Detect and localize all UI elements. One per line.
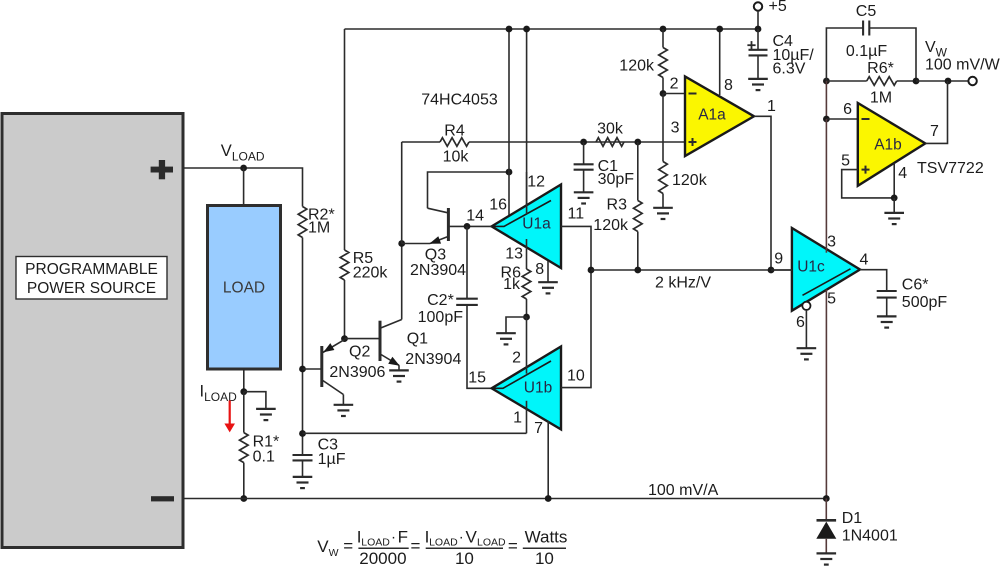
capacitor C1 — [574, 142, 635, 188]
svg-text:·: · — [391, 529, 396, 546]
label pin 12 — [527, 174, 545, 191]
node 2kHz net left — [588, 267, 595, 274]
node C5/R6 left junction — [823, 78, 830, 85]
capacitor C6* — [877, 277, 948, 312]
pin 8 rail A1a — [716, 26, 723, 95]
capacitor C5 — [826, 3, 916, 81]
svg-text:120k: 120k — [619, 58, 655, 75]
svg-text:74HC4053: 74HC4053 — [421, 92, 498, 109]
svg-text:R6*: R6* — [867, 60, 894, 77]
svg-text:6: 6 — [843, 101, 852, 118]
svg-text:C6*: C6* — [902, 277, 929, 294]
wire U1c output pin 4 — [860, 270, 887, 291]
wire pin6 to A1b — [826, 118, 857, 120]
svg-text:V: V — [466, 528, 478, 547]
svg-text:C2*: C2* — [427, 292, 454, 309]
wire Q3 base to U1a pin 14 — [448, 225, 491, 227]
formula Vw equation — [317, 528, 567, 569]
ground above U1b — [496, 333, 516, 344]
ground below C4 — [748, 79, 768, 90]
svg-text:10k: 10k — [443, 149, 470, 166]
+5 supply terminal — [754, 0, 787, 32]
label pin 6 A1b — [843, 101, 852, 118]
node Q1c/Q3e/R4 junction — [398, 240, 405, 247]
left tall rail to R5 — [344, 29, 346, 250]
svg-text:10: 10 — [535, 549, 554, 568]
minus terminal symbol — [151, 496, 174, 501]
ground at Q2 collector — [334, 405, 354, 416]
label 100 mV/A — [648, 482, 719, 499]
ground below A1b — [884, 213, 904, 224]
wire to ground A1b — [893, 198, 895, 213]
wire 2kHz to U1c pin 9 — [771, 269, 792, 271]
svg-text:7: 7 — [534, 420, 543, 437]
resistor R3 120k — [593, 142, 642, 234]
pin 5 rail down to bottom — [825, 290, 827, 499]
label pin 4 A1b — [898, 165, 907, 182]
svg-text:=: = — [343, 536, 353, 555]
svg-text:1µF: 1µF — [318, 451, 346, 468]
op-amp A1b — [858, 103, 926, 186]
svg-text:Q1: Q1 — [407, 331, 428, 348]
svg-text:Watts: Watts — [525, 528, 568, 547]
svg-text:7: 7 — [930, 123, 939, 140]
label pin 2 A1a — [670, 76, 679, 93]
node R6 right junction — [913, 78, 920, 85]
pin 12 line into U1a — [526, 172, 528, 214]
wire plus terminal to R2 top — [183, 168, 303, 207]
transistor Q2 2N3906 — [322, 340, 386, 405]
resistor 120k upper — [619, 29, 667, 94]
label pin 5 A1b — [841, 153, 850, 170]
svg-text:V: V — [317, 537, 329, 556]
label pin 10 — [567, 368, 585, 385]
svg-text:=: = — [508, 536, 518, 555]
svg-text:11: 11 — [568, 206, 585, 223]
label pin 4 U1c — [859, 252, 868, 269]
svg-text:120k: 120k — [672, 172, 708, 189]
svg-text:6: 6 — [796, 314, 805, 331]
wire Q3 collector up and right — [428, 172, 510, 208]
wire R2 bottom rail — [302, 238, 304, 455]
svg-text:6.3V: 6.3V — [773, 61, 806, 78]
svg-text:F: F — [398, 528, 408, 547]
label pin 9 U1c — [774, 251, 783, 268]
svg-text:1k: 1k — [503, 276, 521, 293]
svg-text:D1: D1 — [842, 510, 863, 527]
svg-text:Q3: Q3 — [425, 247, 446, 264]
wire junction to Q1 base — [345, 338, 381, 340]
svg-text:2N3904: 2N3904 — [405, 351, 461, 368]
wire R6 to junction — [526, 299, 528, 317]
node C1 junction — [580, 139, 587, 146]
svg-text:0.1: 0.1 — [253, 449, 275, 466]
label pin 1 — [513, 410, 522, 427]
wire top rail — [345, 28, 760, 30]
svg-text:1M: 1M — [870, 90, 892, 107]
label 74HC4053 — [421, 92, 498, 109]
svg-text:10: 10 — [567, 368, 585, 385]
ground below U1c pin 6 — [797, 348, 817, 359]
resistor R1* — [240, 433, 280, 466]
label pin 16 — [489, 197, 507, 214]
label pin 1 A1a — [767, 98, 776, 115]
label 2 kHz/V — [655, 275, 711, 292]
wire bottom rail 100mV/A — [183, 498, 826, 500]
pin 4 line A1b — [893, 163, 895, 198]
wire V_LOAD down to load — [243, 168, 245, 206]
label pin 8 A1a — [724, 77, 733, 94]
label pin 13 — [505, 246, 523, 263]
node pin16 rail lower — [506, 169, 513, 176]
svg-text:8: 8 — [535, 261, 544, 278]
wire C2 to U1b pin 15 — [467, 305, 492, 388]
wire R6 to Vw terminal — [916, 80, 968, 82]
svg-text:2N3904: 2N3904 — [410, 262, 466, 279]
svg-text:U1c: U1c — [797, 259, 825, 276]
pin 8 stub U1a — [547, 261, 549, 282]
wire load bottom to I_LOAD node — [243, 369, 245, 392]
svg-text:LOAD: LOAD — [477, 537, 506, 549]
node 120k top — [660, 26, 667, 33]
wire A1b pin5 loop — [842, 170, 895, 198]
svg-text:14: 14 — [466, 208, 484, 225]
svg-text:5: 5 — [827, 291, 836, 308]
transistor Q3 2N3904 — [402, 208, 466, 279]
resistor R4 — [402, 123, 685, 244]
pin 13 line — [526, 239, 528, 269]
analog switch U1a (74HC4053 section a) — [492, 185, 561, 269]
node A1a pin2 — [660, 90, 667, 97]
node C2 tap on pin14 wire — [464, 223, 471, 230]
node I_LOAD — [200, 383, 248, 404]
pin 2 line into U1b — [526, 317, 528, 374]
capacitor C4 — [747, 29, 814, 78]
svg-text:1M: 1M — [308, 220, 330, 237]
svg-text:4: 4 — [859, 252, 868, 269]
label pin 15 — [468, 370, 486, 387]
ground at I_LOAD — [256, 409, 276, 420]
wire 2kHz/V net — [591, 269, 792, 271]
svg-text:0.1µF: 0.1µF — [846, 43, 887, 60]
node R6 bottom junction — [523, 314, 530, 321]
resistor R6* 1M — [826, 60, 916, 107]
label pin 5 U1c — [827, 291, 836, 308]
ground below C6 — [877, 316, 897, 327]
svg-text:220k: 220k — [353, 265, 389, 282]
svg-text:2N3906: 2N3906 — [329, 364, 385, 381]
wire C1 to ground — [583, 170, 585, 192]
Vw output terminal — [925, 39, 1000, 85]
resistor 120k lower — [659, 94, 708, 208]
svg-text:9: 9 — [774, 251, 783, 268]
svg-text:30pF: 30pF — [598, 171, 635, 188]
node C3 junction — [299, 430, 306, 437]
node A1a out to U1c — [768, 267, 775, 274]
wire R1 to bottom rail — [240, 463, 247, 502]
svg-text:2 kHz/V: 2 kHz/V — [655, 275, 711, 292]
svg-text:20000: 20000 — [359, 549, 406, 568]
wire A1b output up — [925, 81, 947, 143]
svg-text:R3: R3 — [607, 197, 628, 214]
ground below C1 — [574, 192, 594, 203]
svg-text:POWER SOURCE: POWER SOURCE — [27, 280, 156, 297]
wire rail to Q2 base — [303, 368, 322, 370]
svg-text:1: 1 — [513, 410, 522, 427]
svg-text:·: · — [459, 529, 464, 546]
capacitor C2* — [418, 226, 478, 326]
label pin 3 A1a — [671, 120, 680, 137]
label pin 7 — [534, 420, 543, 437]
capacitor C3 — [293, 437, 346, 469]
label pin 8 U1a — [535, 261, 544, 278]
svg-text:120k: 120k — [593, 217, 629, 234]
svg-text:4: 4 — [898, 165, 907, 182]
svg-text:16: 16 — [489, 197, 507, 214]
label TSV7722 — [917, 160, 984, 177]
svg-text:12: 12 — [527, 174, 545, 191]
wire U1b pin 1 to C3 node — [303, 432, 527, 434]
node A1b pin 6 — [823, 116, 830, 123]
diode D1 1N4001 — [816, 499, 898, 554]
pin 1 line U1b — [526, 401, 528, 434]
svg-text:+5: +5 — [769, 0, 787, 15]
svg-text:100pF: 100pF — [418, 309, 464, 326]
pin 16 rail — [506, 26, 513, 216]
current direction red arrow — [224, 400, 235, 432]
svg-text:PROGRAMMABLE: PROGRAMMABLE — [25, 261, 158, 278]
svg-text:30k: 30k — [597, 121, 624, 138]
pin 6 bubble U1c — [796, 302, 811, 348]
label pin 3 U1c — [827, 234, 836, 251]
svg-text:1N4001: 1N4001 — [842, 528, 898, 545]
node V_LOAD — [221, 142, 265, 171]
label pin 7 A1b — [930, 123, 939, 140]
wire U1b pin 10 up — [561, 270, 591, 388]
svg-text:500pF: 500pF — [902, 294, 948, 311]
svg-text:LOAD: LOAD — [223, 280, 265, 297]
svg-text:TSV7722: TSV7722 — [917, 160, 984, 177]
wire pin2 to A1a — [663, 93, 685, 95]
node 30k/R3 junction — [634, 139, 641, 146]
svg-text:C5: C5 — [856, 3, 877, 20]
wire junction to ground stub — [506, 317, 527, 333]
svg-text:LOAD: LOAD — [361, 537, 390, 549]
svg-text:5: 5 — [841, 153, 850, 170]
analog switch U1b (74HC4053 section b) — [492, 347, 561, 430]
pin 12 rail — [523, 26, 530, 214]
node pin4/pin5 ground junction — [891, 195, 898, 202]
node D1 top on bottom rail — [823, 495, 830, 502]
wire R3 to 2kHz net — [634, 232, 641, 274]
svg-text:2: 2 — [670, 76, 679, 93]
svg-text:A1b: A1b — [874, 137, 902, 154]
svg-text:100 mV/W: 100 mV/W — [925, 57, 1000, 74]
maroon rail C5 junction down to U1c pin 3 — [825, 81, 827, 119]
label pin 11 — [568, 206, 585, 223]
wire I_LOAD to ground — [244, 392, 266, 409]
resistor R5 — [340, 250, 388, 282]
node R2-Q2 base junction — [299, 366, 306, 373]
node R5/Q2e/Q1b junction — [341, 335, 348, 342]
ground at U1a pin 8 — [538, 282, 558, 293]
pin 7 line U1b — [547, 421, 549, 499]
label pin 2 — [512, 350, 521, 367]
wire U1a pin 11 to output node — [561, 226, 591, 270]
load box — [208, 206, 281, 370]
svg-text:W: W — [329, 547, 339, 559]
plus terminal symbol — [151, 160, 173, 179]
power source label — [16, 257, 167, 300]
svg-text:Q2: Q2 — [349, 344, 370, 361]
node Vw tap — [945, 78, 952, 85]
transistor Q1 2N3904 — [380, 320, 461, 371]
wire Q1 collector rail — [401, 244, 403, 320]
wire C3 to ground — [302, 460, 304, 476]
wire C4 to ground — [757, 55, 759, 78]
svg-text:3: 3 — [827, 234, 836, 251]
svg-text:15: 15 — [468, 370, 486, 387]
wire C6 to ground — [886, 298, 888, 316]
svg-text:10: 10 — [455, 549, 474, 568]
node pin7 on bottom rail — [545, 495, 552, 502]
resistor 30k — [596, 121, 624, 147]
wire R5 to Q-junction — [344, 280, 346, 339]
svg-text:100 mV/A: 100 mV/A — [648, 482, 719, 499]
maroon rail down to U1c — [825, 119, 827, 228]
op-amp A1a — [685, 76, 754, 156]
resistor R2* — [298, 207, 334, 238]
svg-text:LOAD: LOAD — [429, 537, 458, 549]
svg-text:A1a: A1a — [698, 107, 726, 124]
svg-text:R4: R4 — [444, 123, 465, 140]
resistor R6 1k — [501, 265, 531, 300]
pin 3 line into U1c — [825, 228, 827, 253]
svg-text:U1b: U1b — [524, 379, 552, 396]
svg-text:U1a: U1a — [522, 216, 551, 233]
svg-text:13: 13 — [505, 246, 523, 263]
wire A1a output down — [754, 116, 771, 270]
svg-text:8: 8 — [724, 77, 733, 94]
svg-text:=: = — [411, 536, 421, 555]
svg-text:1: 1 — [767, 98, 776, 115]
svg-text:2: 2 — [512, 350, 521, 367]
analog switch U1c (74HC4053 section c) — [792, 228, 860, 311]
wire I_LOAD to R1 — [243, 392, 245, 433]
ground at Q1 emitter — [389, 370, 409, 381]
ground below D1 — [817, 553, 837, 564]
ground below C3 — [293, 477, 313, 488]
ground below 120k lower — [653, 208, 673, 219]
label pin 14 — [466, 208, 484, 225]
svg-text:3: 3 — [671, 120, 680, 137]
programmable power source box — [2, 114, 183, 548]
